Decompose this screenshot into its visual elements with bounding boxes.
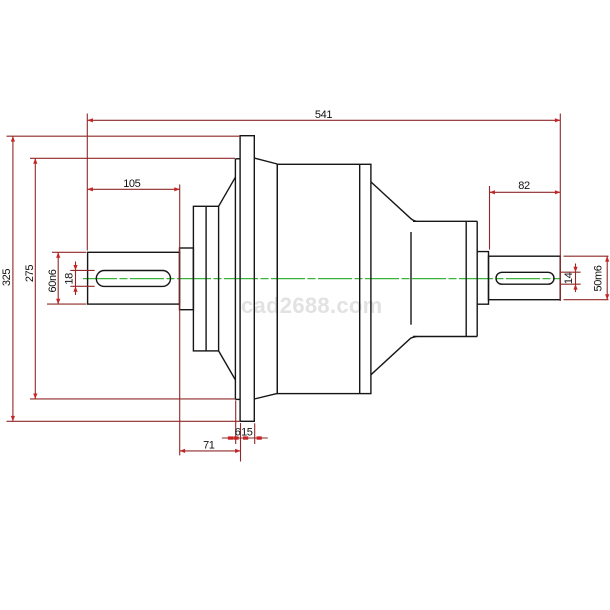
centerline (green axis) [83,278,560,280]
right cone tangent edge [410,232,412,325]
arrow 50m6 top [605,256,609,261]
main body barrel [277,164,371,393]
arrow mark 6 right [233,436,238,439]
arrow 82 right [555,190,560,194]
dimension line 6-15 [222,437,268,439]
svg-text:6: 6 [235,426,241,438]
right keyway slot [496,272,554,284]
right of flange lower slant [254,393,277,399]
arrow 82 left [490,190,495,194]
right cone upper slant [371,182,417,221]
right cone lower slant [371,337,417,375]
arrow 325 top [11,136,15,141]
svg-text:541: 541 [315,109,332,121]
arrow 325 bottom [11,416,15,421]
left hub block [193,206,218,351]
arrow mark 6 left [228,436,233,439]
svg-text:18: 18 [64,273,76,285]
svg-text:275: 275 [24,265,36,282]
left hub inner edge [205,206,207,351]
arrow 18 top [73,265,77,270]
arrow 71 left [180,449,185,453]
extension line y136 dim325 top [7,135,241,137]
left step ring [180,248,194,310]
left cone top shelf [235,158,240,160]
dimension line 60n6 [57,252,59,304]
left shaft body [88,252,180,304]
extension line y421.3 dim325 bottom [7,420,241,422]
extension line y270.4 dim18 top [70,269,94,271]
extension line y398.9 dim275 bottom [30,398,235,400]
dimension line 105 [87,188,179,190]
extension line y299.7 dim50m6 bottom [564,299,609,301]
extension line right end 541/82 [559,114,561,302]
dimension line 275 [34,158,36,399]
svg-text:71: 71 [203,439,215,451]
right of flange upper slant [254,158,277,164]
flange disc [240,136,254,422]
body inner edge [359,164,361,393]
left cone upper slant [219,177,236,206]
extension line y252.3 dim60n6 top [52,251,86,253]
extension line x254.7 dim15 [254,423,256,444]
arrow 71 right [235,449,240,453]
extension line left end 541/105 [86,114,88,251]
extension line y158.3 dim275 top [30,157,235,159]
dimension line 50m6 [606,256,608,300]
arrow 60n6 top [56,252,60,257]
arrow 105 right [174,187,179,191]
svg-text:105: 105 [123,178,140,190]
dimension line 541 [87,119,560,121]
arrow 541 left [87,118,93,122]
right shaft body [489,256,561,300]
left cone lower slant [219,351,236,380]
arrow 18 bottom [73,286,77,291]
extension line x240.5 dim6/15/71 [240,423,242,462]
arrow 105 left [87,187,93,191]
extension line x179.7 105/71 [179,185,181,456]
dimension line 82 [490,191,561,193]
dimension line 18 [75,262,77,296]
svg-text:50m6: 50m6 [593,265,605,291]
svg-text:60n6: 60n6 [47,269,59,292]
left keyway slot [96,271,170,287]
extension line y286.3 dim18 bottom [70,285,94,287]
arrow 541 right [555,118,560,122]
svg-text:82: 82 [518,180,530,192]
arrow mark 15 right [257,436,262,439]
arrow 50m6 bottom [605,294,609,299]
extension line y304.1 dim60n6 bottom [47,303,86,305]
left cone bottom shelf [235,398,240,400]
dimension line 325 [12,136,14,421]
svg-text:14: 14 [563,272,575,284]
extension line y256.2 dim50m6 top [564,255,609,257]
arrow 60n6 bottom [56,299,60,304]
arrow 14 bottom [573,284,577,289]
dimension line 71 [180,450,241,452]
extension line x235.7 dim6 [235,401,237,445]
extension line y272.2 dim14 top [560,271,580,273]
svg-text:cad2688.com: cad2688.com [241,293,383,318]
arrow 275 top [33,158,37,163]
arrow 14 top [573,267,577,272]
arrow 275 bottom [33,394,37,399]
right step ring [477,252,488,305]
arrow mark 15 left [243,436,248,439]
left cone base edge [234,159,236,400]
body left face edge [276,164,278,393]
extension line y284.2 dim14 bottom [560,283,580,285]
svg-text:325: 325 [1,269,13,286]
svg-text:15: 15 [241,426,253,438]
dimension line 14 [575,264,577,293]
right cylinder journal [413,221,477,336]
extension line x489.5 dim82 [489,186,491,250]
